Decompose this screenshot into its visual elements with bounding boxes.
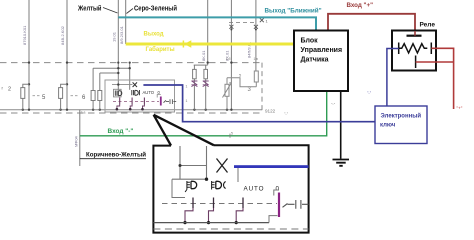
inset contact 3: [242, 198, 244, 209]
svg-text:87910.K01: 87910.K01: [22, 25, 27, 45]
wire link B: [100, 72, 119, 74]
teal wire low beam: [118, 17, 316, 30]
svg-text:1: 1: [186, 85, 188, 89]
svg-text:1 а: 1 а: [81, 111, 86, 115]
inset wire vertical 1: [179, 146, 181, 179]
ground: [333, 160, 350, 166]
resistor 6 branch: [66, 83, 68, 85]
inset contact 1: [192, 198, 194, 209]
black wire to ground: [340, 91, 342, 159]
red wire relay lower: [416, 61, 454, 63]
svg-text:8K.01: 8K.01: [201, 50, 206, 61]
inset magnified switch box: [153, 145, 308, 232]
purple wiper bar small: [160, 97, 162, 106]
relay contact bar: [407, 35, 422, 37]
callout line left: [154, 115, 171, 146]
connector X marks: [229, 25, 233, 29]
svg-text:9122: 9122: [265, 109, 276, 114]
wire vertical feeder 6: [230, 0, 232, 110]
svg-text:Выход: Выход: [144, 32, 164, 38]
red wire relay right: [431, 48, 453, 109]
green wire input minus: [80, 91, 327, 136]
potentiometer 3: [226, 78, 228, 85]
wire vertical feeder 7: [255, 0, 257, 71]
LED pair branch: [194, 64, 208, 66]
svg-text:"-": "-": [331, 102, 336, 107]
svg-text:Серо-Зеленый: Серо-Зеленый: [134, 5, 177, 13]
svg-text:1 в: 1 в: [254, 57, 259, 61]
resistor 5 branch: [28, 83, 30, 85]
wire: dash-dot link top: [229, 21, 256, 23]
wire vertical feeder 3: [117, 0, 119, 90]
wire vertical feeder 5: [207, 0, 209, 65]
svg-text:МФ04: МФ04: [74, 135, 79, 147]
svg-text:1: 1: [186, 99, 188, 103]
icon park lights small: [114, 89, 122, 97]
label 5: [33, 95, 41, 97]
svg-text:0: 0: [276, 186, 280, 193]
wire vertical inside switch: [129, 63, 131, 90]
blue wire from switch: [143, 85, 375, 122]
svg-text:Датчика: Датчика: [301, 57, 329, 64]
icon headlights small: [132, 90, 134, 95]
svg-text:Электронный: Электронный: [381, 113, 422, 120]
svg-text:Желтый: Желтый: [77, 5, 101, 13]
inset elbow to wiper: [269, 216, 278, 223]
inset blue thick bar: [234, 165, 309, 168]
light switch component (small): [105, 80, 175, 112]
blue wire relay coil left: [387, 49, 399, 107]
red wire input plus: [328, 14, 415, 31]
wire pot hookup: [227, 78, 256, 87]
junction dots on bottom bus: [22, 109, 24, 111]
wire: bottom dashed bus: [0, 112, 262, 114]
yellow wire output: [126, 43, 294, 46]
relay stub: [415, 56, 417, 69]
svg-text:"-": "-": [367, 90, 372, 95]
inset wire vertical 2: [206, 146, 208, 179]
inset wire horizontal upper: [180, 165, 207, 167]
inset bracket wire: [172, 179, 185, 197]
inset X mark: [217, 159, 228, 173]
svg-text:Габариты: Габариты: [146, 46, 175, 53]
svg-text:1 б: 1 б: [226, 57, 231, 61]
svg-text:Реле: Реле: [420, 22, 436, 29]
inset wire horizontal lower: [172, 178, 207, 180]
svg-text:Управления: Управления: [301, 47, 343, 54]
sensor control unit box: [294, 31, 348, 92]
resistor pair feeding switch: [92, 68, 94, 90]
relay box: [392, 31, 436, 71]
tick on green: [229, 134, 231, 138]
inset dashed contact row: [162, 203, 277, 205]
inset contact 2: [213, 198, 215, 209]
svg-text:"+": "+": [457, 106, 463, 111]
svg-text:"-": "-": [284, 111, 289, 116]
contact tick 3: [143, 98, 145, 105]
wire vertical feeder 4: [125, 0, 127, 44]
svg-text:2: 2: [8, 87, 11, 93]
label 6: [71, 95, 79, 97]
wire: dashed box right edge 9122: [261, 63, 263, 113]
resistor near 3: [254, 71, 258, 82]
svg-text:AUTO: AUTO: [244, 186, 265, 193]
inset wire under bar: [237, 168, 239, 182]
dashed contact row small: [113, 101, 159, 103]
relay coil: [398, 43, 400, 55]
svg-text:84B-2.K02: 84B-2.K02: [60, 25, 65, 45]
svg-text:8/9.2/3.01: 8/9.2/3.01: [119, 25, 124, 44]
inset icon park lights: [185, 181, 190, 192]
diode D2: [203, 81, 209, 87]
wire vertical feeder 1: [28, 0, 30, 110]
wire: bottom solid bus: [0, 109, 262, 111]
svg-text:Вход "-": Вход "-": [108, 128, 134, 135]
wire into switch: [112, 84, 133, 86]
inset purple wiper bar: [278, 193, 280, 218]
svg-text:19.01: 19.01: [112, 31, 117, 42]
svg-text:ключ: ключ: [380, 123, 396, 129]
capacitor mark small: [164, 99, 177, 104]
diode D1: [191, 81, 197, 87]
wire vertical feeder 2: [66, 0, 68, 110]
svg-text:Коричнево-Желтый: Коричнево-Желтый: [86, 150, 146, 158]
inset capacitor symbol: [283, 200, 309, 209]
svg-text:Вход "+": Вход "+": [347, 2, 374, 9]
brown-yellow drop wire: [79, 110, 81, 166]
svg-text:5: 5: [231, 132, 233, 136]
X mark in switch: [133, 82, 137, 87]
diode yellow: [182, 41, 184, 48]
wire link A: [93, 67, 130, 69]
inset dashed bottom row: [153, 228, 308, 230]
contact tick 1: [119, 98, 121, 105]
electronic key box: [375, 106, 427, 144]
svg-text:Блок: Блок: [301, 38, 319, 45]
inset icon headlights: [211, 181, 214, 190]
svg-text:AUTO: AUTO: [143, 90, 155, 95]
callout line right: [154, 115, 214, 146]
junction dots on top dashed bus: [28, 61, 30, 63]
contact tick 2: [131, 98, 133, 105]
wire: top dashed bus: [0, 62, 262, 64]
svg-text:Выход "Ближний": Выход "Ближний": [265, 7, 322, 15]
inset solid bottom wire: [153, 222, 269, 224]
inset wiper hook: [274, 190, 279, 196]
